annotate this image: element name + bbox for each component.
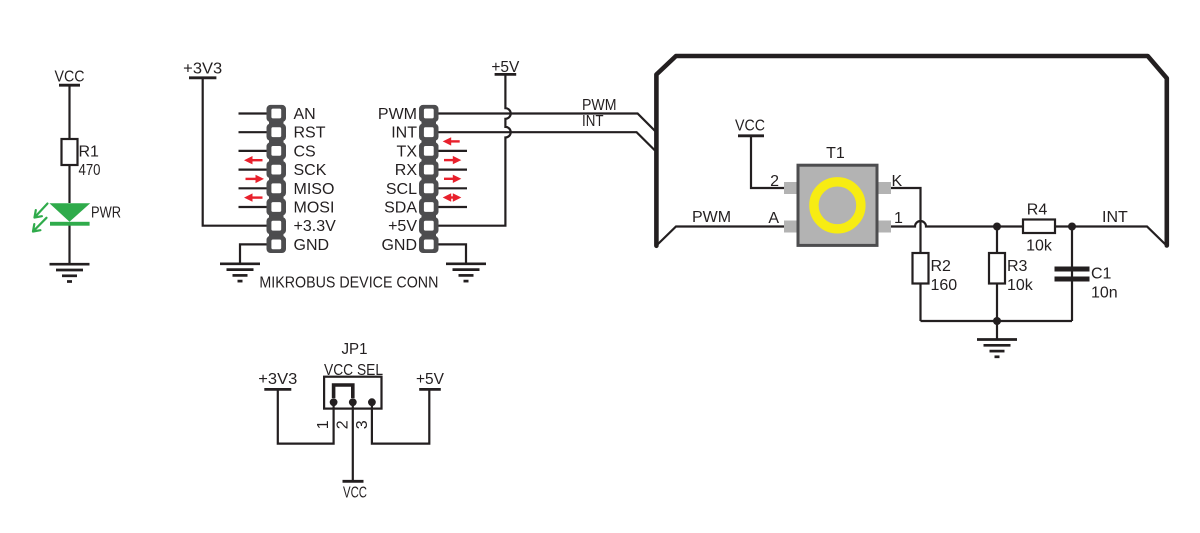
svg-text:10k: 10k bbox=[1007, 277, 1034, 294]
svg-text:T1: T1 bbox=[826, 145, 845, 162]
svg-text:10n: 10n bbox=[1091, 285, 1118, 302]
wire JP1 pin1 to +3V3 bbox=[278, 389, 334, 443]
direction arrow MOSI (red, left) bbox=[251, 196, 263, 198]
wire ground rail bbox=[921, 320, 1073, 322]
wire R3 vertical bbox=[996, 227, 998, 322]
power flag VCC (T1) bbox=[735, 118, 765, 136]
junction node (C1 top) bbox=[1068, 223, 1076, 231]
resistor R4 bbox=[1023, 220, 1055, 234]
svg-text:PWM: PWM bbox=[692, 209, 731, 226]
wire JP1 pin2 to VCC bbox=[352, 402, 354, 481]
power flag +3V3 (header) bbox=[183, 61, 222, 78]
wire VCC to T1 pin 2 bbox=[751, 136, 784, 188]
svg-text:+3V3: +3V3 bbox=[258, 371, 297, 388]
svg-text:MIKROBUS DEVICE CONN: MIKROBUS DEVICE CONN bbox=[259, 275, 438, 292]
wire pin RX bbox=[439, 169, 468, 171]
svg-text:AN: AN bbox=[294, 106, 316, 123]
wire pin INT to board edge bbox=[439, 132, 656, 150]
power flag +5V (header) bbox=[491, 59, 519, 76]
capacitor C1 bbox=[1055, 267, 1090, 282]
direction arrow SCK (red, left) bbox=[251, 159, 263, 161]
svg-text:R4: R4 bbox=[1027, 202, 1048, 219]
svg-text:SCL: SCL bbox=[386, 181, 417, 198]
power flag VCC (JP1, down) bbox=[343, 481, 368, 501]
svg-text:GND: GND bbox=[294, 237, 330, 254]
connector CN1 mikroBUS left header bbox=[267, 105, 287, 253]
svg-text:SDA: SDA bbox=[384, 200, 417, 217]
label R4 value 10k bbox=[1026, 202, 1053, 255]
svg-text:PWM: PWM bbox=[378, 106, 417, 123]
svg-text:JP1: JP1 bbox=[342, 341, 368, 358]
direction arrow TX (red, left) bbox=[450, 140, 460, 142]
wire pin CS bbox=[239, 150, 267, 152]
wire R1 to LED bbox=[68, 165, 70, 203]
svg-text:A: A bbox=[768, 210, 779, 227]
optocoupler T1 bbox=[784, 165, 891, 245]
wire pin SCK bbox=[239, 169, 267, 171]
svg-text:+3V3: +3V3 bbox=[183, 61, 222, 78]
LED D1 PWR (green) bbox=[33, 203, 90, 231]
svg-text:1: 1 bbox=[894, 210, 903, 227]
svg-text:MOSI: MOSI bbox=[294, 200, 335, 217]
jumper JP1 body bbox=[324, 377, 381, 409]
wire board edge to T1 anode bbox=[658, 227, 785, 245]
wire R2 lower bbox=[919, 253, 921, 321]
svg-text:1: 1 bbox=[315, 420, 332, 429]
wire pin 1 to INT with hop over K wire bbox=[891, 221, 1167, 245]
svg-text:+3.3V: +3.3V bbox=[294, 218, 337, 235]
svg-text:MISO: MISO bbox=[294, 181, 335, 198]
direction arrow SCL (red, right) bbox=[444, 178, 454, 180]
direction arrow MISO (red, right) bbox=[246, 178, 258, 180]
svg-text:160: 160 bbox=[931, 277, 958, 294]
wire pin GND to ground bbox=[240, 244, 267, 263]
wire VCC to R1 bbox=[68, 85, 70, 139]
label R1 value 470 bbox=[79, 144, 101, 180]
wire +3V3 rail to pin +3.3V bbox=[203, 78, 267, 226]
ground (right header) bbox=[446, 264, 486, 281]
label R2 value 160 bbox=[931, 258, 958, 294]
board outline (thick border) bbox=[656, 56, 1166, 246]
wire pin GND to ground (right) bbox=[439, 244, 467, 263]
wire pin SDA bbox=[439, 206, 468, 208]
svg-text:+5V: +5V bbox=[416, 371, 444, 388]
svg-text:GND: GND bbox=[381, 237, 417, 254]
wire pin RST bbox=[239, 131, 267, 133]
svg-text:2: 2 bbox=[770, 173, 779, 190]
svg-text:PWM: PWM bbox=[582, 97, 617, 114]
wire pin SCL bbox=[439, 187, 468, 189]
power flag VCC bbox=[55, 69, 85, 86]
svg-text:RX: RX bbox=[395, 162, 418, 179]
svg-text:TX: TX bbox=[397, 143, 418, 160]
svg-text:INT: INT bbox=[582, 113, 604, 130]
resistor R3 bbox=[989, 253, 1005, 284]
svg-text:RST: RST bbox=[294, 125, 326, 142]
svg-text:INT: INT bbox=[1102, 209, 1128, 226]
svg-text:+5V: +5V bbox=[388, 218, 417, 235]
svg-text:VCC: VCC bbox=[343, 485, 367, 502]
wire C1 vertical bbox=[1071, 227, 1073, 322]
direction arrow SDA (red, double) bbox=[449, 196, 456, 198]
svg-text:R1: R1 bbox=[79, 144, 100, 161]
svg-text:3: 3 bbox=[354, 420, 371, 429]
wire +5V rail with hops over PWM and INT bbox=[439, 74, 511, 225]
wire pin MISO bbox=[239, 187, 267, 189]
svg-text:CS: CS bbox=[294, 143, 316, 160]
label R3 value 10k bbox=[1007, 258, 1034, 294]
svg-text:2: 2 bbox=[335, 420, 352, 429]
wire K to R2 bbox=[891, 188, 921, 253]
wire JP1 pin3 to +5V bbox=[372, 389, 429, 443]
ground (LED branch) bbox=[50, 264, 90, 281]
svg-text:VCC: VCC bbox=[55, 69, 85, 86]
ground (output network) bbox=[977, 340, 1017, 357]
resistor R2 bbox=[913, 253, 929, 284]
direction arrow RX (red, right) bbox=[444, 159, 454, 161]
svg-text:R3: R3 bbox=[1007, 258, 1028, 275]
svg-text:VCC: VCC bbox=[735, 118, 765, 135]
junction node (ground rail) bbox=[993, 317, 1001, 325]
label C1 value 10n bbox=[1091, 266, 1118, 302]
wire pin AN bbox=[239, 112, 267, 114]
wire pin PWM to board edge bbox=[439, 114, 657, 132]
connector CN2 mikroBUS right header bbox=[419, 105, 439, 253]
ground (left header) bbox=[220, 264, 260, 281]
svg-text:10k: 10k bbox=[1026, 238, 1053, 255]
svg-text:C1: C1 bbox=[1091, 266, 1112, 283]
power flag +3V3 (JP1) bbox=[258, 371, 297, 389]
svg-text:INT: INT bbox=[391, 125, 417, 142]
svg-text:470: 470 bbox=[79, 162, 101, 179]
wire LED to ground bbox=[68, 222, 70, 264]
wire pin TX bbox=[439, 150, 468, 152]
svg-text:R2: R2 bbox=[931, 258, 952, 275]
wire ground stub bbox=[996, 321, 998, 340]
power flag +5V (JP1) bbox=[416, 371, 444, 389]
svg-text:SCK: SCK bbox=[294, 162, 327, 179]
resistor R1 bbox=[62, 139, 78, 165]
wire pin MOSI bbox=[239, 206, 267, 208]
svg-text:PWR: PWR bbox=[91, 205, 121, 222]
junction node (R3 top) bbox=[993, 223, 1001, 231]
